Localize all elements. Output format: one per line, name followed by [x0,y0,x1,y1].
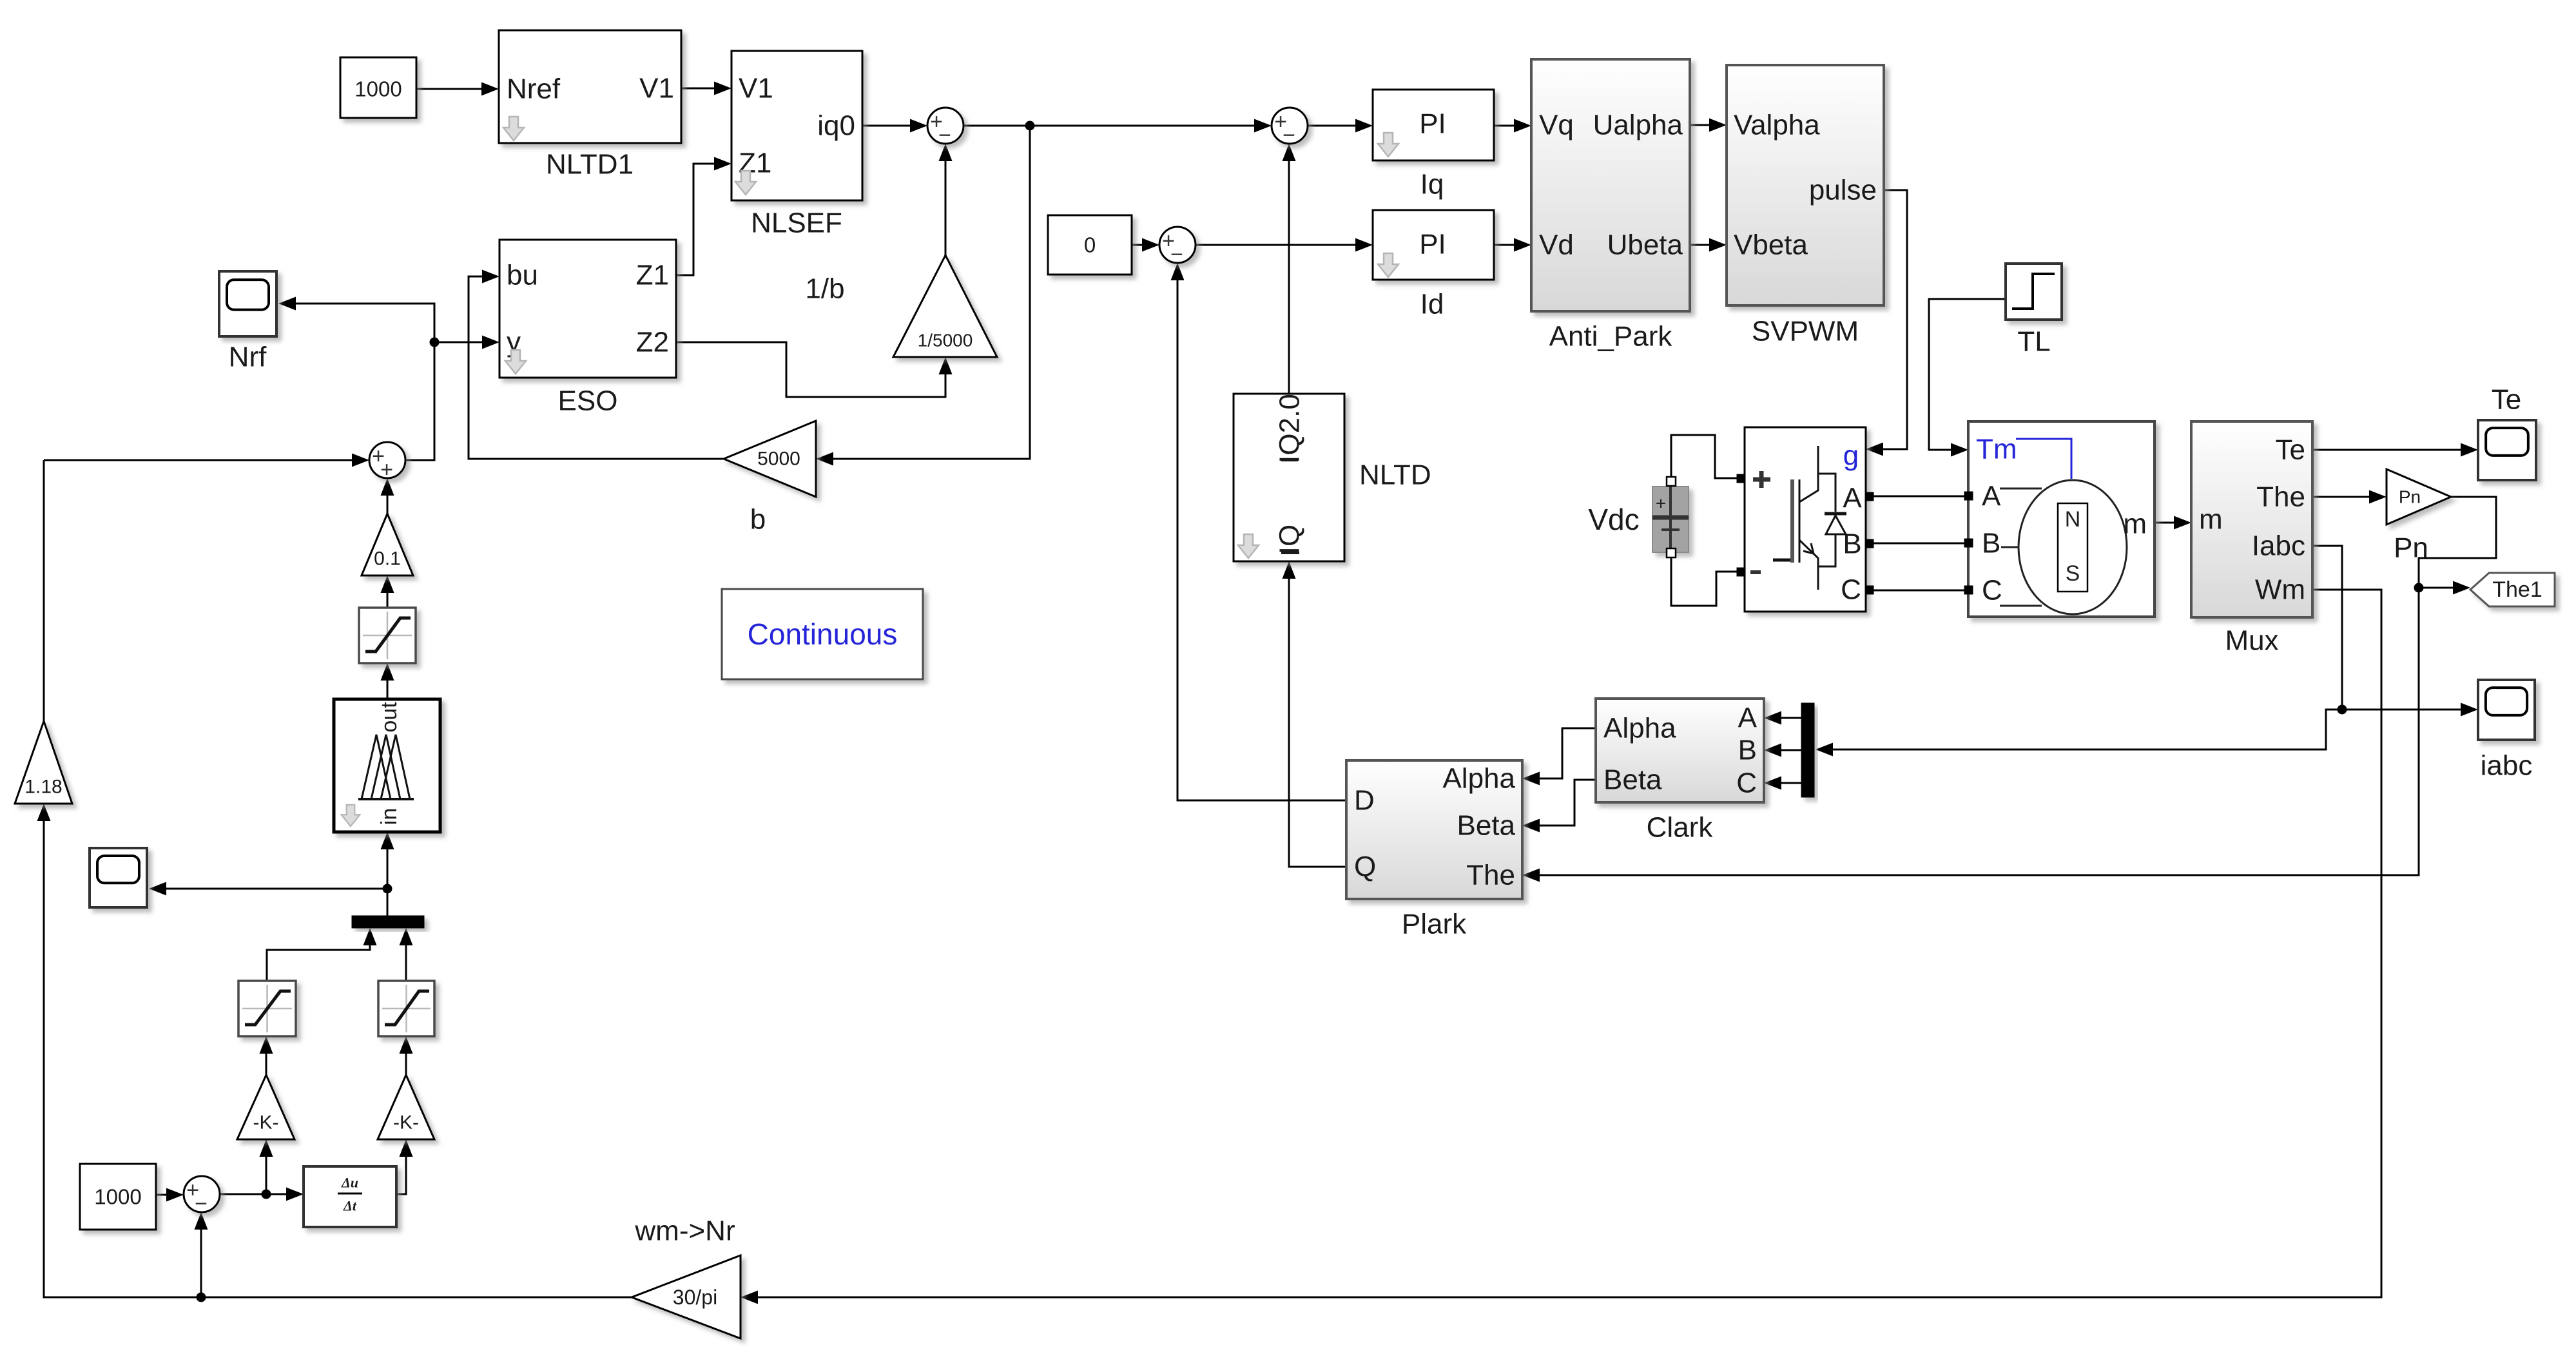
svg-text:Ubeta: Ubeta [1607,229,1683,261]
svg-text:Tm: Tm [1976,434,2017,465]
svg-text:Vdc: Vdc [1588,503,1639,536]
svg-text:Beta: Beta [1457,810,1515,842]
svg-text:5000: 5000 [757,449,800,470]
svg-text:−: − [938,123,951,148]
svg-text:0.1: 0.1 [374,548,401,570]
svg-text:V1: V1 [739,73,773,104]
svg-text:ESO: ESO [558,385,618,417]
svg-text:Continuous: Continuous [748,617,898,651]
svg-text:S: S [2066,561,2080,586]
svg-text:The: The [2256,481,2305,513]
svg-text:pulse: pulse [1809,175,1877,206]
svg-text:out: out [377,702,402,733]
svg-text:Z2: Z2 [636,327,669,358]
svg-text:b: b [750,504,766,536]
svg-text:iq0: iq0 [817,110,855,142]
svg-text:C: C [1841,574,1861,606]
svg-text:IQ2.0: IQ2.0 [1274,394,1306,463]
svg-text:Vbeta: Vbeta [1734,229,1808,261]
svg-text:Ualpha: Ualpha [1593,110,1683,141]
svg-text:m: m [2199,504,2223,536]
svg-text:Pn: Pn [2399,487,2421,507]
svg-text:Te: Te [2492,384,2521,416]
svg-text:D: D [1354,785,1375,816]
svg-text:Anti_Park: Anti_Park [1549,321,1673,353]
svg-text:Vd: Vd [1539,229,1574,261]
svg-text:C: C [1736,768,1757,799]
svg-text:B: B [1738,735,1757,766]
svg-text:1000: 1000 [94,1185,141,1209]
svg-text:NLTD1: NLTD1 [546,149,634,180]
svg-text:−: − [1170,242,1183,267]
svg-text:-K-: -K- [393,1112,419,1134]
svg-text:The: The [1466,860,1515,891]
svg-text:A: A [1843,483,1862,514]
svg-text:Plark: Plark [1402,909,1467,940]
svg-text:1/5000: 1/5000 [918,331,973,351]
svg-text:1000: 1000 [354,77,402,101]
svg-text:PI: PI [1419,229,1446,260]
svg-text:V1: V1 [639,73,674,104]
svg-text:NLSEF: NLSEF [751,208,842,239]
svg-text:IQ: IQ [1274,525,1306,554]
svg-text:Iq: Iq [1420,169,1444,200]
svg-text:Δt: Δt [343,1198,357,1214]
svg-text:B: B [1982,528,2000,559]
svg-text:−: − [195,1192,208,1216]
svg-text:iabc: iabc [2481,750,2533,782]
svg-text:−: − [1283,123,1295,148]
svg-text:Vq: Vq [1539,110,1574,141]
svg-text:30/pi: 30/pi [673,1286,717,1309]
svg-text:bu: bu [507,260,538,291]
svg-text:The1: The1 [2492,577,2542,602]
svg-text:Alpha: Alpha [1442,763,1515,795]
svg-text:1/b: 1/b [805,273,844,305]
svg-text:Valpha: Valpha [1734,110,1820,141]
svg-text:PI: PI [1419,108,1446,140]
svg-text:Id: Id [1420,289,1444,320]
svg-text:Mux: Mux [2225,625,2278,657]
svg-text:A: A [1738,702,1758,734]
svg-text:Δu: Δu [341,1175,358,1191]
svg-text:NLTD: NLTD [1359,459,1431,491]
svg-text:Alpha: Alpha [1603,713,1676,744]
svg-text:Nref: Nref [507,73,561,105]
svg-text:Pn: Pn [2394,532,2428,564]
svg-text:Nrf: Nrf [229,342,267,373]
svg-text:1.18: 1.18 [24,777,62,798]
svg-text:A: A [1982,481,2001,512]
svg-text:wm->Nr: wm->Nr [634,1215,735,1247]
svg-text:Z1: Z1 [636,260,669,291]
svg-text:m: m [2123,508,2147,540]
svg-text:Iabc: Iabc [2252,530,2305,562]
svg-text:0: 0 [1084,233,1096,257]
svg-text:in: in [377,808,402,825]
svg-text:Wm: Wm [2255,574,2305,606]
svg-text:+: + [1656,494,1666,514]
svg-text:+: + [380,458,393,482]
svg-text:TL: TL [2017,326,2050,358]
svg-text:SVPWM: SVPWM [1752,316,1859,347]
svg-text:g: g [1843,440,1859,472]
svg-text:N: N [2065,507,2081,532]
svg-text:C: C [1982,575,2002,606]
svg-text:Clark: Clark [1647,812,1714,844]
svg-text:Te: Te [2276,434,2305,466]
svg-text:-K-: -K- [253,1112,279,1134]
svg-text:Beta: Beta [1603,764,1662,796]
svg-text:Q: Q [1354,851,1376,883]
